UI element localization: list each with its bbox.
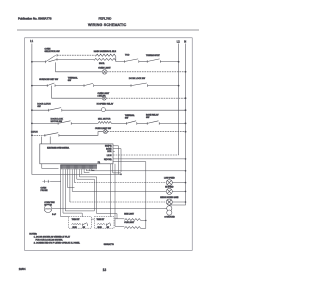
svg-text:P1: P1 xyxy=(98,162,100,164)
svg-text:10/04: 10/04 xyxy=(19,267,26,271)
svg-text:MAIN BAKE/BROIL ELE: MAIN BAKE/BROIL ELE xyxy=(94,50,117,53)
header rule xyxy=(17,29,199,31)
junction L1 rung5 xyxy=(31,134,33,136)
svg-text:2. CONNECTED BY: P LE/WD OPE: 2. CONNECTED BY: P LE/WD OPEN AT AL PANE… xyxy=(34,242,81,245)
junction lamp1 N xyxy=(185,71,187,73)
junction rung5 N xyxy=(185,131,187,133)
svg-text:OVEN LIGHT: OVEN LIGHT xyxy=(98,67,111,69)
bake light element xyxy=(124,219,141,221)
latch switch xyxy=(48,109,50,112)
option box 2 (dashed) xyxy=(94,217,114,229)
svg-text:TOD: TOD xyxy=(125,54,130,56)
wire to bake element xyxy=(57,54,96,56)
junction L1 rung1 xyxy=(31,61,33,63)
junction rung3 N xyxy=(185,109,187,111)
oven light lamp DL1 xyxy=(102,70,107,75)
wire rung5 xyxy=(59,132,104,136)
svg-text:TRIM KIT: TRIM KIT xyxy=(72,219,81,221)
svg-text:N: N xyxy=(184,39,186,43)
electronic oven control board U1 xyxy=(40,144,113,164)
harness wires from board connector xyxy=(61,169,92,217)
svg-text:NOTES:: NOTES: xyxy=(29,233,37,235)
junction rung2 L2 xyxy=(178,85,180,87)
broil element (lower winding) xyxy=(94,58,116,60)
wire harness to N xyxy=(86,170,185,172)
indicator lamp DL3 xyxy=(103,130,107,134)
svg-text:SELECTOR SW: SELECTOR SW xyxy=(45,51,60,53)
wire harness lower steps xyxy=(63,211,117,219)
wire rung3 xyxy=(32,109,49,111)
svg-text:TIME KIT: TIME KIT xyxy=(97,219,106,221)
svg-text:MED/HI SPEED BAKE: MED/HI SPEED BAKE xyxy=(160,196,179,199)
svg-text:WIRING SCHEMATIC: WIRING SCHEMATIC xyxy=(88,23,127,27)
svg-text:OVEN LIGHT SW: OVEN LIGHT SW xyxy=(95,128,111,130)
svg-text:SURFACE UNIT SW: SURFACE UNIT SW xyxy=(39,78,58,81)
svg-text:BK(P3): BK(P3) xyxy=(105,146,112,148)
junction lamp2 N xyxy=(185,97,187,99)
svg-text:5995A778: 5995A778 xyxy=(104,243,115,246)
wire motor to harness xyxy=(52,208,167,210)
svg-text:L2: L2 xyxy=(177,39,180,43)
svg-text:Publication No. 5995A778: Publication No. 5995A778 xyxy=(18,16,52,20)
svg-text:ELEM: ELEM xyxy=(73,227,78,229)
wire MED/HI SPEED BAKE to N xyxy=(172,201,185,203)
wire rung5 xyxy=(32,134,45,136)
wire rung2 xyxy=(32,85,47,87)
wire drop from selector to light rung xyxy=(56,62,103,71)
svg-text:SW: SW xyxy=(146,117,149,119)
wire to broil element xyxy=(57,58,94,60)
wires elements to riser xyxy=(115,219,146,229)
wire L2 rail xyxy=(178,44,180,156)
latch interlock switch xyxy=(44,134,46,137)
board ribbon connector P1 xyxy=(61,165,98,170)
wire xyxy=(71,122,98,124)
wire rung4 xyxy=(32,122,58,124)
wire board corner drops xyxy=(110,164,121,227)
wire xyxy=(55,85,84,87)
wire HI SPEED to N xyxy=(172,190,185,192)
wire LOW SPEED from harness xyxy=(75,182,167,184)
oven light element xyxy=(124,227,141,229)
wire xyxy=(139,61,147,63)
bake element (upper winding) xyxy=(96,54,116,56)
wire rung2 to L2 xyxy=(148,85,179,87)
junction rung4 N xyxy=(185,123,187,125)
wire N rail xyxy=(169,44,185,207)
svg-text:BAKE: BAKE xyxy=(106,147,112,150)
svg-text:BROIL: BROIL xyxy=(99,63,105,65)
svg-text:HI SPEED RELAY: HI SPEED RELAY xyxy=(97,102,114,105)
wire lamp2 to N xyxy=(106,97,185,99)
svg-text:HTR: HTR xyxy=(107,151,112,153)
schematic border frame xyxy=(25,38,193,251)
probe jack J1 xyxy=(43,180,51,182)
MDL motor element xyxy=(98,122,112,124)
bake relay switch xyxy=(146,122,148,125)
wire board row exits xyxy=(113,146,121,175)
limit switch xyxy=(83,84,85,87)
svg-text:MDL MOTOR: MDL MOTOR xyxy=(98,118,111,120)
convection outlet (double circle) xyxy=(167,206,172,211)
thermal limiter switch xyxy=(123,60,125,63)
svg-text:ELEM: ELEM xyxy=(98,227,103,229)
svg-text:LATCH: LATCH xyxy=(31,131,38,134)
wire between boxes xyxy=(91,218,94,220)
wire LOW SPEED to N xyxy=(172,182,185,184)
relay coil K1 xyxy=(101,108,105,112)
svg-text:THERMOSTAT: THERMOSTAT xyxy=(146,54,161,57)
svg-text:SW: SW xyxy=(68,80,71,82)
svg-text:SW: SW xyxy=(83,227,86,229)
wire rung4 to N xyxy=(159,122,185,124)
thermal switch xyxy=(125,122,127,125)
wire harness steps xyxy=(68,170,97,213)
svg-text:L1: L1 xyxy=(30,39,33,43)
door lock switch xyxy=(130,84,132,87)
wire rung3 to N xyxy=(105,109,185,111)
junction L1 rung4 xyxy=(31,123,33,125)
wire lamp to N xyxy=(107,71,186,73)
svg-text:FEFL79D: FEFL79D xyxy=(99,16,113,20)
wire xyxy=(62,109,102,111)
svg-text:OVN LIGHT: OVN LIGHT xyxy=(124,222,135,224)
wire board to L2 xyxy=(113,154,179,156)
svg-text:SW: SW xyxy=(125,118,128,120)
svg-text:ELECTRONIC OVEN CONTROL: ELECTRONIC OVEN CONTROL xyxy=(47,147,69,149)
wire (y216.7) feed to option boxes xyxy=(61,216,69,218)
surface unit switch xyxy=(46,84,48,87)
junction L1 rung2 xyxy=(31,85,33,87)
svg-text:PROBE: PROBE xyxy=(41,190,49,192)
svg-text:SW: SW xyxy=(107,227,110,229)
wire xyxy=(137,122,147,124)
svg-text:SW: SW xyxy=(37,106,40,108)
svg-text:BKE LIGHT: BKE LIGHT xyxy=(124,214,135,216)
svg-text:N(COM): N(COM) xyxy=(104,159,112,161)
wire board ground to harness xyxy=(42,164,59,169)
wire board to riser xyxy=(113,162,146,229)
wire MED/HI SPEED BAKE from harness xyxy=(70,201,166,203)
wire drop to lamp2 xyxy=(52,86,103,99)
wire element merge xyxy=(116,56,125,61)
svg-text:1. DOOR SHOWN AS VIEWED AT FL: 1. DOOR SHOWN AS VIEWED AT FLAT xyxy=(34,235,71,238)
wire xyxy=(94,85,131,87)
wire HI SPEED from harness xyxy=(72,190,166,192)
wire board to N xyxy=(113,158,186,160)
svg-text:DOOR LOCK SW: DOOR LOCK SW xyxy=(129,78,145,80)
oven light lamp DL2 xyxy=(102,96,106,100)
selector switch S1 xyxy=(45,61,47,64)
wire to N xyxy=(107,131,185,133)
svg-text:L2 IN: L2 IN xyxy=(107,155,112,157)
svg-text:⊕ GROUND: ⊕ GROUND xyxy=(164,215,175,218)
wire xyxy=(112,122,127,124)
wire rung1 from L1 xyxy=(32,61,46,63)
wire rung1 to L2 xyxy=(160,61,178,63)
wire L1 rail xyxy=(32,44,121,175)
convection fan motor M1 xyxy=(44,205,52,213)
door lock motor switch xyxy=(57,122,59,125)
oven thermostat switch xyxy=(146,60,148,63)
junction L1 rung3 xyxy=(31,109,33,111)
wire stubs into board xyxy=(41,137,43,144)
junction rung1 L2 xyxy=(178,61,180,63)
option box 1 (dashed) xyxy=(69,217,92,229)
wire probe to harness xyxy=(51,180,61,183)
svg-text:FOR OUR LOOK AS SHOWN.: FOR OUR LOOK AS SHOWN. xyxy=(36,238,64,241)
svg-text:13: 13 xyxy=(103,268,107,272)
svg-text:5 uF: 5 uF xyxy=(52,214,57,216)
